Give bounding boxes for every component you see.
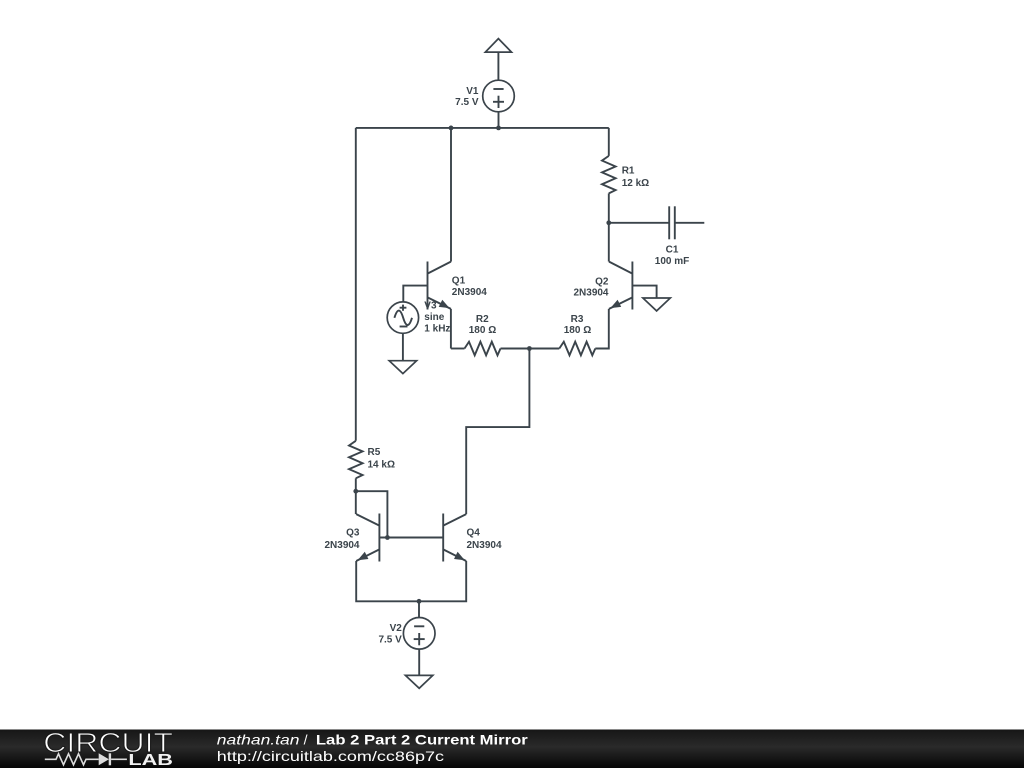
svg-text:2N3904: 2N3904 [452,287,487,298]
wire Q1 collector drop [450,128,452,262]
transistor Q4 [442,514,444,562]
node junction on rail (V1) [496,126,501,131]
svg-text:14 kΩ: 14 kΩ [368,460,395,471]
resistor R3 [559,342,595,356]
transistor Q1 [427,262,429,310]
wire [355,478,357,514]
svg-text:2N3904: 2N3904 [324,540,359,551]
svg-text:http://circuitlab.com/cc86p7c: http://circuitlab.com/cc86p7c [217,748,444,764]
svg-text:180 Ω: 180 Ω [469,325,496,336]
svg-text:2N3904: 2N3904 [573,287,608,298]
svg-text:Q1: Q1 [452,276,466,287]
node junction on rail (Q1 branch) [449,126,454,131]
capacitor C1 [609,222,669,224]
svg-text:sine: sine [424,312,444,323]
wire [418,601,420,617]
svg-text:/: / [304,732,308,748]
svg-text:7.5 V: 7.5 V [455,97,479,108]
wire [497,52,499,80]
svg-text:100 mF: 100 mF [655,256,689,267]
svg-text:R5: R5 [368,447,381,458]
wire [595,309,609,349]
wire center drop from R2/R3 node [466,349,529,515]
wire [501,348,530,350]
node below R5 [353,489,358,494]
voltage source V1 [483,80,515,112]
resistor R5 [349,441,363,478]
svg-text:Lab 2 Part 2 Current Mirror: Lab 2 Part 2 Current Mirror [316,732,529,748]
svg-text:R1: R1 [622,166,635,177]
svg-text:V2: V2 [390,623,403,634]
svg-text:R2: R2 [476,314,489,325]
svg-text:1 kHz: 1 kHz [424,324,450,335]
source V3 (sine) [387,302,418,333]
node R2/R3 junction [527,346,532,351]
svg-text:nathan.tan: nathan.tan [217,732,300,748]
svg-text:Q2: Q2 [595,277,609,288]
svg-text:Q4: Q4 [467,527,481,538]
node on base rail [385,535,390,540]
node R1/C1/Q2 [606,220,611,225]
power supply arrow (VCC symbol) [485,39,511,53]
wire left rail down [355,128,357,441]
node V2 top [417,599,422,604]
resistor R2 [465,342,501,356]
wire Q2 base to ground [632,286,656,298]
svg-text:12 kΩ: 12 kΩ [622,178,649,189]
wire below V2 [418,649,420,675]
wire top rail [356,127,609,129]
wire [451,348,465,350]
wire Q1 base [403,286,427,302]
wire [498,112,500,128]
transistor Q3 [378,514,380,562]
svg-text:R3: R3 [571,314,584,325]
wire below V3 [402,333,404,360]
svg-text:LAB: LAB [128,752,173,768]
svg-text:180 Ω: 180 Ω [564,325,591,336]
transistor Q2 [631,262,633,310]
wire diode connection [356,491,388,537]
ground below V2 [405,675,432,688]
svg-text:V1: V1 [466,86,479,97]
resistor R1 [608,128,610,156]
wire Q1 emitter down [450,309,452,349]
wire base rail Q3-Q4 [379,537,443,539]
ground at Q2 base [643,298,670,311]
voltage source V2 [403,618,435,650]
logo resistor-diode glyph [45,754,99,765]
svg-text:2N3904: 2N3904 [467,540,502,551]
wire Q3 emitter down [356,561,466,601]
svg-text:V3: V3 [424,301,437,312]
wire [529,348,559,350]
svg-text:C1: C1 [666,244,679,255]
svg-text:Q3: Q3 [346,527,360,538]
wire Q2 collector [608,223,610,262]
ground below V3 [389,361,416,374]
svg-text:7.5 V: 7.5 V [378,635,402,646]
